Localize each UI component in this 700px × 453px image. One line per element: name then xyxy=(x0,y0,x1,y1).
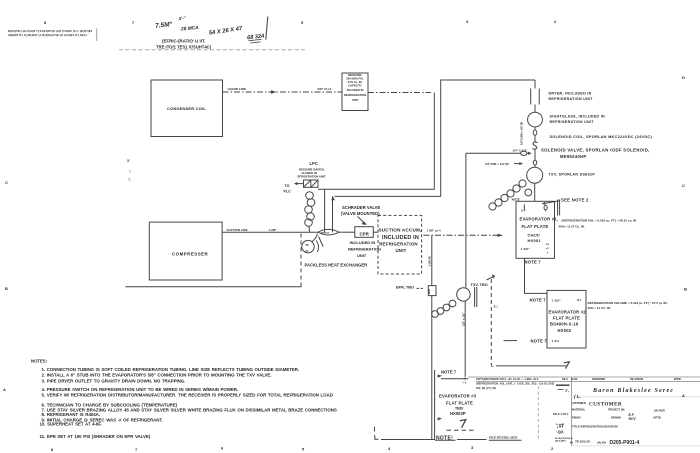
svg-text:1-;: 1-; xyxy=(494,305,498,309)
svg-text:B: B xyxy=(684,287,687,292)
svg-text:5: 5 xyxy=(302,447,305,452)
svg-text:SYS CL. IN.: SYS CL. IN. xyxy=(348,80,363,84)
svg-text:LIQUID LINE: LIQUID LINE xyxy=(228,87,246,91)
svg-text:LPC: LPC xyxy=(310,161,318,166)
svg-text:';#f: ';#f xyxy=(556,424,565,430)
svg-text:EVAPORATOR #3: EVAPORATOR #3 xyxy=(439,393,477,398)
svg-text:CPR: CPR xyxy=(360,231,370,236)
svg-text:B: B xyxy=(5,286,8,291)
svg-text:i: i xyxy=(130,170,131,174)
svg-text:NOTE 7: NOTE 7 xyxy=(531,338,548,343)
svg-text:(EFRIC-(RATIO' U IIT.: (EFRIC-(RATIO' U IIT. xyxy=(162,39,205,44)
svg-text:FINISH: FINISH xyxy=(572,415,581,419)
svg-text:6: 6 xyxy=(221,446,224,451)
svg-text:EFRIGERATION UNIT: EFRIGERATION UNIT xyxy=(298,175,327,179)
svg-text:TBD/: TBD/ xyxy=(455,406,463,410)
svg-text:8(P(4(TE( (.E(-P(A(R T( 04(14(: 8(P(4(TE( (.E(-P(A(R T( 04(14(OT(S (A(4 … xyxy=(8,29,93,33)
svg-text:2: 2 xyxy=(554,19,557,24)
svg-text:=/2: =/2 xyxy=(546,248,550,250)
svg-text:EECE EECEIE(S. (IECD: EECE EECEIE(S. (IECD xyxy=(489,436,518,440)
svg-text:REFRIGERATION UNIT: REFRIGERATION UNIT xyxy=(550,120,595,124)
svg-text:SOLENOID VALVE, SPORLAN tOD: SOLENOID VALVE, SPORLAN tODF SOLENOID, xyxy=(541,148,650,153)
svg-text:DRAW/WN: DRAW/WN xyxy=(592,377,605,381)
svg-text:68 324: 68 324 xyxy=(247,33,266,41)
svg-text:REFRIGERATION: REFRIGERATION xyxy=(379,241,418,246)
svg-text:ME95240HP: ME95240HP xyxy=(560,154,586,159)
svg-text:11. EPR SET AT 100 PSI (SHRAD: 11. EPR SET AT 100 PSI (SHRADER ON EPR V… xyxy=(40,434,151,439)
svg-text:SUCTION ACCUM,: SUCTION ACCUM, xyxy=(379,228,422,233)
svg-text:O/2: O/2 xyxy=(546,244,550,246)
svg-text:COMPRESSER: COMPRESSER xyxy=(172,252,209,257)
svg-text:8. REFRIGERANT IS R404A.: 8. REFRIGERANT IS R404A. xyxy=(42,412,100,417)
svg-text:7.5M°: 7.5M° xyxy=(155,20,173,30)
svg-text:REFRIGERATION: REFRIGERATION xyxy=(348,246,381,251)
svg-text:NOTE 7: NOTE 7 xyxy=(530,298,547,303)
svg-text:(REFRIGERATION. VOL. (AVE..) -: (REFRIGERATION. VOL. (AVE..) - 5 O/E. (O… xyxy=(476,382,554,386)
svg-text:(REFRIGERATION VOL = 0.192 cu.: (REFRIGERATION VOL = 0.192 cu. FT.) = 26… xyxy=(562,219,637,223)
svg-text:40%= 11.27 Cu. IN.: 40%= 11.27 Cu. IN. xyxy=(559,225,585,229)
svg-text:1/2"(10M x 1/2"(R: 1/2"(10M x 1/2"(R xyxy=(520,122,524,145)
svg-text:PLC: PLC xyxy=(284,189,292,193)
svg-text:MATERIAL: MATERIAL xyxy=(572,407,586,411)
svg-text:2: 2 xyxy=(551,446,554,451)
svg-text:EVAPORATOR #1,: EVAPORATOR #1, xyxy=(520,217,559,222)
svg-text:DRAWN: DRAWN xyxy=(611,415,621,419)
svg-text:L: L xyxy=(491,363,494,368)
svg-text:FLAT PLATE: FLAT PLATE xyxy=(522,224,549,229)
svg-text:H1: H1 xyxy=(577,298,581,302)
svg-text:C: C xyxy=(5,180,8,185)
svg-text:UNIT: UNIT xyxy=(352,98,359,102)
svg-text:( L.: ( L. xyxy=(574,394,581,399)
svg-text:1/4" X 1/2": 1/4" X 1/2" xyxy=(513,148,528,152)
svg-text:1. CONNECTION TUBING IS SOFT: 1. CONNECTION TUBING IS SOFT COILED REFR… xyxy=(42,367,300,372)
svg-text:4. PRESSURE SWITCH ON REFRIGE: 4. PRESSURE SWITCH ON REFRIGERATION UNIT… xyxy=(42,387,239,392)
svg-text:ML: ML xyxy=(570,440,574,444)
svg-text:BS400H-X-16: BS400H-X-16 xyxy=(550,321,579,326)
svg-text:Baron Blakeslee Serec: Baron Blakeslee Serec xyxy=(592,388,674,394)
svg-text:4'-'': 4'-'' xyxy=(177,15,187,21)
svg-text:1 3/8": 1 3/8" xyxy=(552,298,562,302)
svg-text:#O(. ((E (.F*(, (D(: #O(. ((E (.F*(, (D( xyxy=(476,386,496,390)
svg-text:3: 3 xyxy=(466,19,469,24)
svg-text:TtE*P(QEF.NVRHP-VW-2 --&1: TtE*P(QEF.NVRHP-VW-2 --&1 .1h-(R +-- 1-B… xyxy=(476,377,539,381)
svg-text:1-3/8": 1-3/8" xyxy=(269,228,278,232)
svg-text:5/8" CU-4: 5/8" CU-4 xyxy=(318,87,332,91)
svg-text:INCLUDED IN: INCLUDED IN xyxy=(382,235,419,241)
svg-text:3. PIPE DRYER OUTLET TO GRAVI: 3. PIPE DRYER OUTLET TO GRAVITY DRAIN DO… xyxy=(42,378,186,383)
svg-text:TXV, SPORLAN SSE62P: TXV, SPORLAN SSE62P xyxy=(549,172,596,176)
svg-text:4(E(R(P R.( 4(.(R(4E(T (4 (F(4: 4(E(R(P R.( 4(.(R(4E(T (4 (F(4(E(A(T(E (… xyxy=(8,33,87,37)
svg-text:HX001: HX001 xyxy=(528,238,542,243)
svg-text:3': 3' xyxy=(127,159,130,163)
svg-text:1/4": 1/4" xyxy=(521,209,527,213)
svg-text:8: 8 xyxy=(51,447,54,452)
svg-text:TXV, TBO: TXV, TBO xyxy=(471,283,488,287)
svg-text:NOTE!: NOTE! xyxy=(436,435,453,441)
svg-text:NOTE 7: NOTE 7 xyxy=(441,369,457,374)
svg-text:1 3/8": 1 3/8" xyxy=(521,247,531,251)
svg-text:(USTOMER: (USTOMER xyxy=(572,401,586,405)
svg-text:A: A xyxy=(3,387,6,392)
svg-text:TITLE REFRIGERATION DIAGRAM: TITLE REFRIGERATION DIAGRAM xyxy=(572,424,618,428)
svg-text:1 3/4: 1 3/4 xyxy=(552,339,560,343)
svg-text:7: 7 xyxy=(132,20,135,25)
svg-text:NOTE 7: NOTE 7 xyxy=(525,259,542,264)
svg-text:RE.V: RE.V xyxy=(562,377,568,381)
svg-text:SOLENOID COIL, SPORLAN MKC2: SOLENOID COIL, SPORLAN MKC224VDC (24VDC) xyxy=(550,135,653,139)
svg-text:CONDENSER COIL: CONDENSER COIL xyxy=(167,106,206,111)
svg-text:2. INSTALL A 6" STUB INTO THE: 2. INSTALL A 6" STUB INTO THE EVAPORATOR… xyxy=(42,373,272,378)
svg-text:HX002P: HX002P xyxy=(450,411,466,416)
svg-text:!;: !; xyxy=(129,178,131,182)
svg-text:TO: TO xyxy=(285,184,290,188)
svg-text:(IA( N(TE: (IA( N(TE xyxy=(654,408,665,412)
svg-text:CAPACITY: CAPACITY xyxy=(348,84,362,88)
svg-text:SCHRADER VALVE: SCHRADER VALVE xyxy=(342,205,380,210)
svg-text:TE: TE xyxy=(305,243,309,247)
svg-text:PALE 4 OF 4: PALE 4 OF 4 xyxy=(553,412,569,416)
svg-text:(M( (L(NE(: (M( (L(NE( xyxy=(555,441,566,443)
svg-text:HX002: HX002 xyxy=(558,328,572,333)
svg-text:FLAT PLATE: FLAT PLATE xyxy=(553,315,580,320)
svg-text:20# (90% FUL: 20# (90% FUL xyxy=(346,77,364,81)
svg-text:8: 8 xyxy=(44,20,47,25)
svg-text:RCV: RCV xyxy=(629,417,637,421)
svg-text:RECEIVER,: RECEIVER, xyxy=(348,73,363,77)
svg-text:1-3/8 (R: 1-3/8 (R xyxy=(428,256,432,266)
svg-text:CH15/: CH15/ xyxy=(528,233,541,238)
svg-text:HHE250: HHE250 xyxy=(321,232,330,234)
svg-text:(VALVE MOUNTED): (VALVE MOUNTED) xyxy=(341,211,380,216)
svg-text:J ,: J , xyxy=(565,388,569,393)
svg-text:5. VERIFY W/ REFRIGERATION DI: 5. VERIFY W/ REFRIGERATION DISTRIBUTOR/M… xyxy=(42,393,333,398)
svg-text:28 MCA: 28 MCA xyxy=(180,25,200,33)
svg-text:NOTES:: NOTES: xyxy=(31,358,48,363)
svg-text:SUCTION LINE: SUCTION LINE xyxy=(227,228,248,232)
svg-text:= 0: = 0 xyxy=(463,381,467,385)
svg-text:'-f)(1: '-f)(1 xyxy=(556,430,564,434)
svg-text:7: 7 xyxy=(135,447,138,452)
svg-text:UNIT: UNIT xyxy=(395,248,406,253)
svg-text:FLAT PLATE: FLAT PLATE xyxy=(446,401,473,406)
svg-text:PACKLESS HEAT EXCHANGER: PACKLESS HEAT EXCHANGER xyxy=(305,262,368,267)
svg-text:40% = 11 CU. IN.: 40% = 11 CU. IN. xyxy=(588,306,611,310)
svg-text:NOTE: NOTE xyxy=(512,197,520,201)
svg-text:kPPB: kPPB xyxy=(674,377,681,381)
svg-text:(IA( NO: (IA( NO xyxy=(597,440,606,444)
svg-text:D205-P001-4: D205-P001-4 xyxy=(610,440,640,446)
svg-text:V/F'ID: V/F'ID xyxy=(653,415,661,419)
svg-text:PROJECT (IN: PROJECT (IN xyxy=(608,407,625,411)
svg-text:6: 6 xyxy=(547,253,549,255)
svg-text:10. SUPERHEAT SET AT 4-6F.: 10. SUPERHEAT SET AT 4-6F. xyxy=(40,422,102,427)
svg-text:1/2"10M + 1/2"(R: 1/2"10M + 1/2"(R xyxy=(485,162,509,166)
svg-text:1/8" x 1/2": 1/8" x 1/2" xyxy=(462,312,466,326)
svg-text:54 X 26 X 47: 54 X 26 X 47 xyxy=(209,26,244,37)
svg-text:CUSTOMER: CUSTOMER xyxy=(589,402,622,408)
svg-text:5: 5 xyxy=(301,20,304,25)
svg-text:TE 9/21/18: TE 9/21/18 xyxy=(575,439,590,443)
svg-text:TRE ITO/1 TES1 075UHT4C(: TRE ITO/1 TES1 075UHT4C( xyxy=(156,45,212,50)
svg-text:REFRIGERATION: REFRIGERATION xyxy=(344,93,366,97)
svg-text:RE VISION: RE VISION xyxy=(630,377,643,381)
svg-text:EVAPORATOR #2: EVAPORATOR #2 xyxy=(549,309,587,314)
svg-text:NCLUDED IN: NCLUDED IN xyxy=(347,88,364,92)
svg-text:UNIT: UNIT xyxy=(357,253,367,258)
svg-text:3: 3 xyxy=(471,445,474,450)
svg-text:D: D xyxy=(682,75,685,80)
svg-text:DRYER, INCLUDED IN: DRYER, INCLUDED IN xyxy=(549,91,592,95)
svg-text:C: C xyxy=(682,183,685,188)
svg-text:INCLUDED IN: INCLUDED IN xyxy=(350,240,376,245)
svg-text:A: A xyxy=(682,393,685,398)
svg-text:REFRIGERATION UNIT: REFRIGERATION UNIT xyxy=(549,97,594,101)
svg-text:1 3/8" cu-4: 1 3/8" cu-4 xyxy=(427,228,442,232)
svg-text:EPR: EPR xyxy=(428,289,431,294)
svg-text:REFRIGERATION VOLUME = 0.019 (: REFRIGERATION VOLUME = 0.019 (u. FT.) * … xyxy=(588,301,668,305)
svg-text:4: 4 xyxy=(388,446,391,451)
svg-text:EPR, TBO: EPR, TBO xyxy=(396,285,414,289)
svg-text:SIGHTGLASS, INCLUDED IN: SIGHTGLASS, INCLUDED IN xyxy=(550,114,606,118)
svg-text:SEE NOTE 2: SEE NOTE 2 xyxy=(561,197,589,202)
svg-text:(AUE: (AUE xyxy=(571,377,578,381)
